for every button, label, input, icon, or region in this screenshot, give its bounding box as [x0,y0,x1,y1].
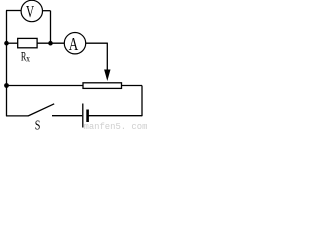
right vertical wire [141,86,143,117]
svg-text:manfen5. com: manfen5. com [84,122,148,130]
ammeter A1 circle [64,33,85,54]
wire resistor to ammeter [37,42,64,44]
battery BT1 positive plate (long) [82,104,84,128]
voltmeter V1 circle [21,0,42,21]
wire bottom-left to switch [6,115,28,117]
wire top-left horizontal [6,10,21,12]
svg-text:x: x [26,53,30,64]
node C dot (left rail junction) [4,83,9,88]
svg-text:S: S [35,117,41,130]
node A dot (left of Rx) [4,41,9,46]
svg-text:V: V [26,3,35,22]
rheostat wiper arrow [104,70,110,82]
resistor Rx box [18,38,37,47]
wire ammeter right [86,42,108,44]
node B dot (right of Rx) [48,41,53,46]
wire down to rheostat wiper [106,43,108,71]
left vertical wire [6,11,8,117]
wire voltmeter right [43,10,51,12]
battery BT1 negative plate (short thick) [86,110,89,123]
bottom wire right of battery [89,115,143,117]
switch S blade [28,104,54,116]
wire battery to switch [52,115,82,117]
wire node C to rheostat left [7,85,84,87]
rheostat R2 box [83,83,122,89]
svg-text:A: A [69,35,79,54]
wire node A to resistor [7,42,18,44]
wire rheostat right [122,85,143,87]
wire vertical from voltmeter to node B [50,11,52,43]
